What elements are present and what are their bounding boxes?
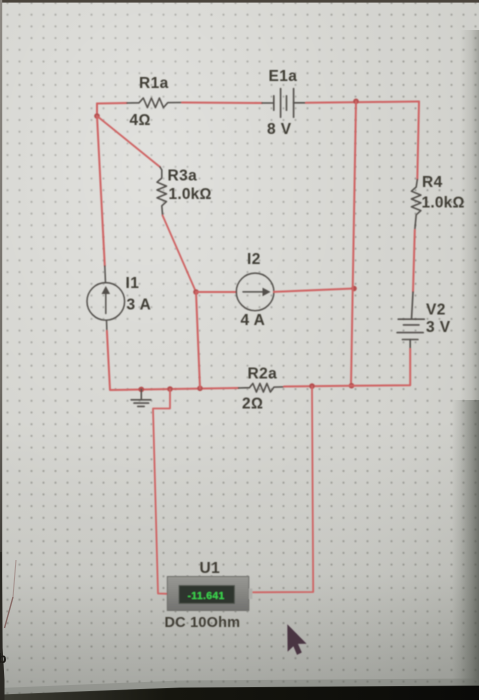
wire A vertical (top junction to bottom wire) (351, 101, 356, 385)
svg-text:DC 10Ohm: DC 10Ohm (165, 615, 241, 631)
battery E1a (262, 89, 306, 118)
resistor R4 (411, 180, 421, 231)
wire V2 down to bottom-right corner (352, 349, 411, 386)
wire corner down to node (96, 104, 98, 117)
node U1 right tap (309, 383, 315, 389)
resistor R2a (239, 383, 285, 392)
svg-text:R1a: R1a (139, 75, 169, 92)
ground junction node (139, 387, 145, 393)
svg-text:R4: R4 (422, 174, 443, 191)
current source I2 (236, 273, 274, 311)
node from R3a branch (197, 386, 203, 392)
screen bezel edges (0, 0, 479, 3)
wire U1 right branch (251, 386, 313, 592)
svg-text:b: b (0, 650, 7, 666)
wire top-right corner down to R4 (417, 102, 419, 180)
wire node A down to I1 (97, 116, 105, 266)
wire R4 to V2 (413, 230, 415, 292)
ground (131, 389, 151, 406)
svg-text:1.0kΩ: 1.0kΩ (169, 186, 212, 203)
current source I1 (87, 266, 125, 331)
svg-text:R2a: R2a (248, 366, 278, 383)
wire U1 left branch (step down) (153, 389, 170, 594)
svg-text:I2: I2 (247, 251, 261, 268)
multimeter U1 (167, 577, 252, 611)
resistor R3a (157, 167, 167, 216)
svg-text:1.0kΩ: 1.0kΩ (422, 195, 465, 212)
wire R2a to bottom-right (284, 385, 352, 388)
wire I2 to node C (274, 289, 354, 292)
node bottom of wire A (349, 383, 355, 389)
wire node B to I2 (196, 291, 236, 293)
wire diagonal node to R3a (97, 116, 160, 167)
svg-text:E1a: E1a (269, 68, 298, 85)
svg-text:8 V: 8 V (267, 121, 292, 138)
battery V2 (397, 292, 424, 349)
svg-text:2Ω: 2Ω (242, 396, 263, 413)
node C junction on wire A (351, 286, 357, 292)
wire R1a to E1a (182, 102, 262, 105)
sheet edge red line (5, 597, 14, 628)
node B junction (193, 289, 199, 295)
svg-text:3 A: 3 A (127, 297, 152, 314)
wire diagonal R3a to node B (163, 216, 196, 293)
resistor R1a (127, 98, 182, 108)
wire node B down to bottom wire (196, 292, 200, 388)
svg-text:V2: V2 (426, 302, 446, 319)
mouse cursor (287, 624, 306, 655)
wire top-left to R1a (97, 102, 127, 105)
svg-text:4Ω: 4Ω (130, 112, 151, 129)
svg-text:3 V: 3 V (426, 319, 451, 336)
svg-text:R3a: R3a (168, 168, 198, 185)
svg-text:I1: I1 (126, 275, 140, 292)
node junction top at wire A (353, 99, 359, 105)
wire I1 down to bottom-left corner (107, 331, 239, 390)
wire E1a to top-right corner (306, 102, 419, 103)
node A (top-left junction) (94, 113, 100, 119)
svg-text:-11.641: -11.641 (188, 590, 225, 602)
node U1 tap junction (167, 386, 173, 392)
svg-text:4 A: 4 A (241, 312, 266, 329)
svg-text:U1: U1 (200, 560, 221, 577)
